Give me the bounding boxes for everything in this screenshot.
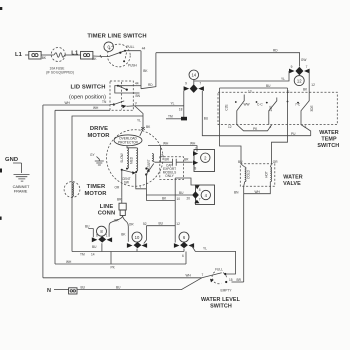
svg-text:WATER LEVEL: WATER LEVEL <box>201 297 241 303</box>
svg-text:SLOW: SLOW <box>120 153 124 162</box>
svg-text:9: 9 <box>291 65 293 69</box>
wire BK to connector 4 bottom pin <box>146 197 199 204</box>
lid switch terminal 44 entry <box>133 82 141 86</box>
svg-text:YL: YL <box>137 119 141 123</box>
motor YL entry contact <box>141 125 151 130</box>
circled 8 <box>97 226 107 236</box>
svg-text:WATER: WATER <box>283 175 303 181</box>
connector 10 right leg wire 52 <box>143 222 147 244</box>
svg-text:ONLY: ONLY <box>165 174 174 178</box>
connector box 2 <box>193 147 215 171</box>
wire YL from lid switch V down to motor <box>135 106 143 129</box>
wire start switch down <box>145 175 147 201</box>
label PULL <box>126 45 134 49</box>
svg-text:BR: BR <box>165 158 170 162</box>
svg-text:8: 8 <box>199 188 201 192</box>
wire YL connector 6 to water level switch <box>192 246 236 275</box>
label 10A FUSE (IF SO EQUIPPED) <box>46 67 74 75</box>
connector 14 diamond <box>184 80 204 93</box>
circled 12 <box>294 76 304 86</box>
svg-text:GND: GND <box>5 157 18 163</box>
title TIMER LINE SWITCH <box>87 34 146 40</box>
svg-text:3DE: 3DE <box>310 105 314 111</box>
svg-text:4: 4 <box>270 125 272 129</box>
svg-text:7: 7 <box>199 197 201 201</box>
water level switch <box>202 267 233 292</box>
svg-text:OR: OR <box>114 219 119 223</box>
svg-text:WH: WH <box>255 190 261 194</box>
svg-text:14: 14 <box>91 253 95 257</box>
label PUSH <box>128 64 138 68</box>
svg-text:24E: 24E <box>269 106 273 112</box>
title WATER TEMP SWITCH <box>317 130 339 149</box>
wire YL from lid switch V to connector 14 <box>135 102 184 112</box>
svg-text:TM: TM <box>168 115 173 119</box>
winding MED <box>130 148 138 173</box>
wire BR water level to valve return <box>232 278 244 282</box>
water temp switch dashed box <box>218 92 337 124</box>
svg-text:7-C: 7-C <box>295 102 301 106</box>
svg-text:BU: BU <box>266 84 271 88</box>
wire WH lower (from left bus to lid switch bottom) <box>55 106 110 110</box>
svg-text:BU: BU <box>204 117 209 121</box>
svg-text:WW: WW <box>244 103 250 107</box>
timer line switch dashed circle <box>107 44 130 67</box>
svg-text:18: 18 <box>179 108 183 112</box>
line conn plug <box>117 197 126 215</box>
svg-text:7: 7 <box>202 273 204 277</box>
svg-text:12: 12 <box>297 78 302 83</box>
label N <box>47 288 51 294</box>
svg-text:BU: BU <box>159 222 164 226</box>
connector 4 diamond pin <box>192 191 199 199</box>
svg-text:SW: SW <box>124 181 129 185</box>
svg-text:WH: WH <box>163 142 169 146</box>
connector 14 left leg and TM terminal <box>166 91 187 120</box>
wire BU to connector 4 <box>146 191 192 201</box>
svg-text:11: 11 <box>287 90 291 94</box>
svg-text:YL: YL <box>281 77 285 81</box>
main bottom bus TM <box>72 252 184 257</box>
svg-text:6: 6 <box>182 254 184 258</box>
timer line switch arm and contacts <box>109 50 141 63</box>
motor ground GY <box>90 153 104 165</box>
svg-text:BR: BR <box>184 158 189 162</box>
svg-text:OR: OR <box>115 185 120 189</box>
svg-text:WH: WH <box>66 260 72 264</box>
title TIMER MOTOR <box>84 184 107 197</box>
terminal 44 label top <box>142 46 146 50</box>
svg-text:LID SWITCH: LID SWITCH <box>70 85 105 91</box>
svg-text:TIMER LINE SWITCH: TIMER LINE SWITCH <box>87 34 146 40</box>
line connector N box <box>54 288 77 294</box>
connector box 4 <box>196 185 215 205</box>
svg-text:MED: MED <box>130 156 134 164</box>
wire WH upper (from left bus to lid switch) <box>43 101 110 105</box>
svg-text:PU: PU <box>291 132 296 136</box>
circled 2 <box>201 153 210 162</box>
svg-text:(IF SO EQUIPPED): (IF SO EQUIPPED) <box>46 71 74 75</box>
temp switch pole 3 <box>287 90 315 136</box>
label L1 (second) <box>71 51 79 57</box>
wire from cent switch to start chain <box>136 174 147 190</box>
svg-text:8: 8 <box>195 166 197 170</box>
title DRIVE MOTOR <box>87 126 110 139</box>
svg-text:CONN: CONN <box>98 211 116 217</box>
valve return wires BN WH <box>234 182 270 282</box>
svg-text:13: 13 <box>248 89 252 93</box>
lid switch BN stub <box>133 93 140 98</box>
start switch <box>145 164 154 176</box>
svg-text:14: 14 <box>191 73 196 78</box>
title WATER VALVE <box>283 175 303 188</box>
wire YL from connector 14 to connector 12 left leg <box>194 71 289 81</box>
svg-text:PULL: PULL <box>126 45 134 49</box>
wire to water valve left feed <box>220 88 242 164</box>
lid switch internal pole 1 <box>115 85 134 93</box>
svg-text:BU: BU <box>81 286 86 290</box>
connector 8 diamond <box>92 234 112 252</box>
left bus wire WH vertical 1 <box>42 105 44 278</box>
lid switch dashed box <box>110 81 133 110</box>
temp switch pole 1 <box>225 89 252 129</box>
svg-text:OR: OR <box>273 160 278 164</box>
temp switch pole 1 PK link to pole 2 <box>237 125 272 131</box>
capacitor dashed box CAP EXPORT MODELS ONLY <box>160 157 184 180</box>
lid switch internal pole 2 (TN to V) <box>110 101 138 109</box>
wire OR from line conn to connector 10 <box>123 216 135 242</box>
svg-text:PUSH: PUSH <box>128 64 138 68</box>
wire BK down from switch to lid switch <box>141 51 148 89</box>
svg-text:BN: BN <box>136 94 141 98</box>
circled 10 <box>132 232 142 242</box>
svg-text:L1: L1 <box>71 51 79 57</box>
wire box to fuse <box>41 54 51 56</box>
circled 6 <box>179 232 189 242</box>
svg-text:BU: BU <box>85 225 90 229</box>
wire BU from temp switch pole 3 down into it <box>287 88 289 102</box>
edge mark left middle <box>0 169 2 173</box>
svg-text:WH: WH <box>186 273 192 277</box>
svg-text:WH: WH <box>65 101 71 105</box>
svg-text:GW: GW <box>301 58 307 62</box>
wire right feed to water valve <box>272 102 288 165</box>
svg-text:44: 44 <box>142 46 146 50</box>
timer motor dashed circle <box>64 182 80 198</box>
edge mark top left <box>0 7 2 10</box>
vertical wire from cap area down <box>174 178 176 243</box>
svg-text:EMPTY: EMPTY <box>221 288 233 292</box>
wire to timer line switch <box>93 55 109 58</box>
wire BK label <box>42 56 47 60</box>
connector 6 diamond <box>174 242 194 258</box>
svg-text:TEMP: TEMP <box>321 137 337 143</box>
wire BU middle (start chain junction) <box>146 222 180 226</box>
wire OR from line conn to connector 8 <box>109 216 123 237</box>
svg-text:DRIVE: DRIVE <box>90 126 108 132</box>
svg-text:TN: TN <box>102 100 107 104</box>
wire RD jog from terminal 44 <box>141 53 156 89</box>
svg-text:1: 1 <box>106 234 108 238</box>
svg-text:7: 7 <box>140 185 142 189</box>
svg-text:C2E: C2E <box>225 104 229 110</box>
svg-text:12: 12 <box>228 125 232 129</box>
svg-text:COLD: COLD <box>247 169 251 179</box>
svg-text:TM: TM <box>80 253 85 257</box>
svg-text:6: 6 <box>96 234 98 238</box>
title LINE CONN <box>98 204 116 217</box>
connector 12 diamond <box>289 65 310 75</box>
svg-text:SWITCH: SWITCH <box>317 143 339 149</box>
svg-text:BU: BU <box>179 191 184 195</box>
overload protector oval <box>114 130 143 146</box>
svg-text:LINE: LINE <box>100 204 114 210</box>
svg-text:(open position): (open position) <box>69 95 106 101</box>
svg-text:10: 10 <box>135 235 140 240</box>
ground GND symbol <box>5 157 30 181</box>
circled 14 <box>189 70 199 80</box>
svg-text:9: 9 <box>185 81 187 85</box>
svg-text:BN: BN <box>234 191 239 195</box>
wire WH long bottom <box>43 273 202 277</box>
svg-text:N: N <box>47 288 51 294</box>
svg-text:SWITCH: SWITCH <box>210 303 232 309</box>
svg-text:WATER: WATER <box>319 130 339 136</box>
cent switch <box>121 169 136 185</box>
svg-text:7: 7 <box>199 81 201 85</box>
svg-text:WH: WH <box>93 106 99 110</box>
label TN <box>102 100 107 104</box>
capacitor C1 <box>155 158 193 166</box>
drive motor dashed circle <box>107 130 164 187</box>
connector terminal box L1 right <box>67 51 93 59</box>
wire BK label 2 <box>92 57 97 61</box>
svg-text:RD: RD <box>273 49 278 53</box>
svg-text:12: 12 <box>176 222 180 226</box>
svg-text:7: 7 <box>195 147 197 151</box>
wire OR from cent switch pivot down to line conn <box>115 170 122 197</box>
winding SLOW <box>120 148 129 170</box>
svg-text:12: 12 <box>311 83 315 87</box>
left bus wire WH vertical 2 <box>54 110 56 264</box>
svg-text:BR: BR <box>117 198 122 202</box>
wire neck between connector boxes <box>175 178 200 189</box>
wire loop to timer motor (top edge) <box>72 116 143 252</box>
svg-text:FRAME: FRAME <box>14 189 28 194</box>
svg-text:44: 44 <box>135 82 139 86</box>
water valve dashed box <box>240 164 274 187</box>
connector terminal box L1 left <box>25 51 41 59</box>
label L1 (left) <box>15 52 23 58</box>
wire BK connector 12 right leg into temp switch <box>303 71 315 101</box>
valve coil cold <box>238 160 251 182</box>
title WATER LEVEL SWITCH <box>201 297 241 310</box>
svg-text:20: 20 <box>187 196 191 200</box>
temp switch pole 2 <box>256 98 277 125</box>
connector 10 diamond <box>121 233 147 252</box>
svg-text:MOTOR: MOTOR <box>87 133 110 139</box>
motor winding bus <box>127 146 136 148</box>
svg-text:OR: OR <box>129 222 134 226</box>
edge mark left lower <box>0 217 2 220</box>
wire step PK <box>55 252 186 270</box>
svg-text:C-C: C-C <box>257 102 263 106</box>
svg-text:HOT: HOT <box>264 171 268 178</box>
svg-text:BR: BR <box>237 278 242 282</box>
wire BU from N to water level switch <box>77 278 202 290</box>
svg-text:52: 52 <box>143 222 147 226</box>
wire RD top run <box>156 49 307 67</box>
svg-text:3: 3 <box>305 125 307 129</box>
svg-text:FULL: FULL <box>215 267 223 271</box>
title LID SWITCH <box>69 85 106 101</box>
svg-text:BU: BU <box>238 160 243 164</box>
circled 0 terminal <box>104 42 114 52</box>
wire from WH down to capacitor wire <box>160 146 163 163</box>
wire BU long (connector 14 right leg to temp switch) <box>202 91 310 136</box>
valve coil hot <box>264 160 278 182</box>
fuse 10A (dashed circle with element) <box>51 48 67 62</box>
svg-text:RD: RD <box>148 83 153 87</box>
svg-text:TIMER: TIMER <box>87 184 106 190</box>
start winding <box>147 154 155 170</box>
svg-text:YL: YL <box>203 247 207 251</box>
svg-text:MOTOR: MOTOR <box>84 191 107 197</box>
svg-text:VALVE: VALVE <box>283 181 301 187</box>
svg-text:BU: BU <box>116 286 121 290</box>
svg-text:YL: YL <box>171 102 175 106</box>
svg-text:10: 10 <box>177 197 181 201</box>
wire WH motor to connector box 2 <box>148 142 197 152</box>
svg-text:WH: WH <box>190 142 196 146</box>
circled 4 <box>201 190 210 199</box>
connector 8 left leg stub <box>85 225 97 249</box>
svg-text:7: 7 <box>306 65 308 69</box>
wire BU horizontal upper (to temp switch) <box>220 84 288 88</box>
svg-text:BU: BU <box>92 245 97 249</box>
label CABINET FRAME <box>13 184 30 194</box>
svg-text:L1: L1 <box>15 52 23 58</box>
svg-text:PROTECTOR: PROTECTOR <box>118 140 139 144</box>
